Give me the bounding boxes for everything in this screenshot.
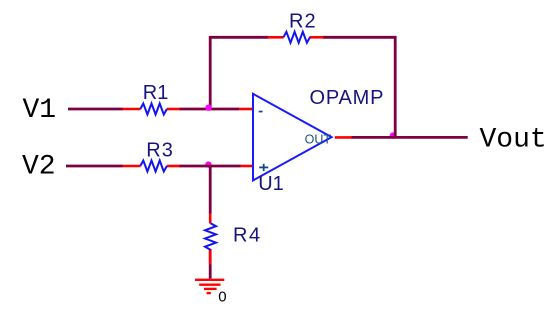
svg-text:R4: R4 xyxy=(233,225,262,247)
svg-text:R2: R2 xyxy=(289,11,317,33)
svg-text:R3: R3 xyxy=(146,140,174,162)
svg-text:R1: R1 xyxy=(143,82,169,104)
svg-text:V2: V2 xyxy=(22,152,56,183)
svg-text:OUT: OUT xyxy=(305,132,332,146)
svg-text:U1: U1 xyxy=(258,173,284,195)
svg-text:OPAMP: OPAMP xyxy=(310,87,385,109)
svg-text:0: 0 xyxy=(218,289,226,306)
svg-text:V1: V1 xyxy=(23,95,57,126)
svg-text:Vout: Vout xyxy=(480,124,547,155)
